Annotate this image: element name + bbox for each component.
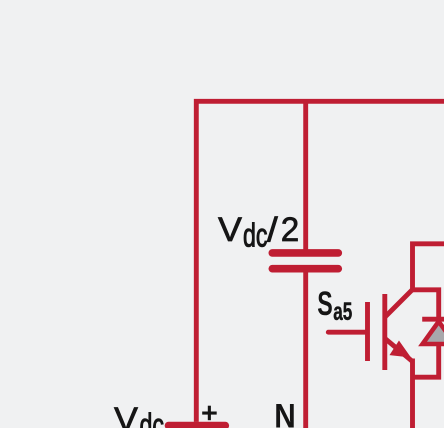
gate lead <box>328 330 365 335</box>
wire: diode anode to emitter node <box>413 343 439 377</box>
wire: left DC bus and top bus <box>196 101 444 422</box>
plus sign of Vdc source <box>202 406 217 421</box>
channel bar <box>382 294 387 370</box>
emitter diagonal <box>385 339 413 362</box>
svg-text:a5: a5 <box>333 298 352 326</box>
collector diagonal <box>385 290 413 318</box>
label Vdc (source) <box>114 401 164 428</box>
svg-text:S: S <box>317 285 333 323</box>
svg-text:/: / <box>267 211 278 249</box>
svg-text:2: 2 <box>281 211 300 249</box>
wire: middle vertical to capacitor top plate <box>303 101 308 249</box>
label Sa5 (switch name) <box>317 285 352 326</box>
gate bar <box>365 302 370 361</box>
wire: emitter vertical to bottom edge <box>410 359 415 428</box>
diode D (antiparallel) branch wires <box>413 290 444 377</box>
emitter arrowhead <box>391 342 409 356</box>
capacitor C (Vdc/2) top plate <box>272 249 338 257</box>
svg-text:V: V <box>218 211 242 249</box>
wire: top-right branch down to collector <box>413 244 444 290</box>
svg-text:N: N <box>274 397 296 428</box>
wire: collector node to diode cathode <box>413 290 439 318</box>
diode cathode bar <box>422 317 444 322</box>
wire: capacitor bottom plate down to N / bottom edge <box>303 272 308 428</box>
diode D body (gray triangle) <box>423 322 444 345</box>
svg-text:V: V <box>114 401 138 428</box>
capacitor C (Vdc/2) bottom plate <box>272 265 338 273</box>
svg-text:dc: dc <box>243 216 268 253</box>
label Vdc/2 (capacitor value) <box>218 211 299 253</box>
transistor Sa5 (IGBT) <box>328 290 412 371</box>
battery Vdc positive plate <box>169 422 226 428</box>
svg-text:dc: dc <box>140 407 165 428</box>
